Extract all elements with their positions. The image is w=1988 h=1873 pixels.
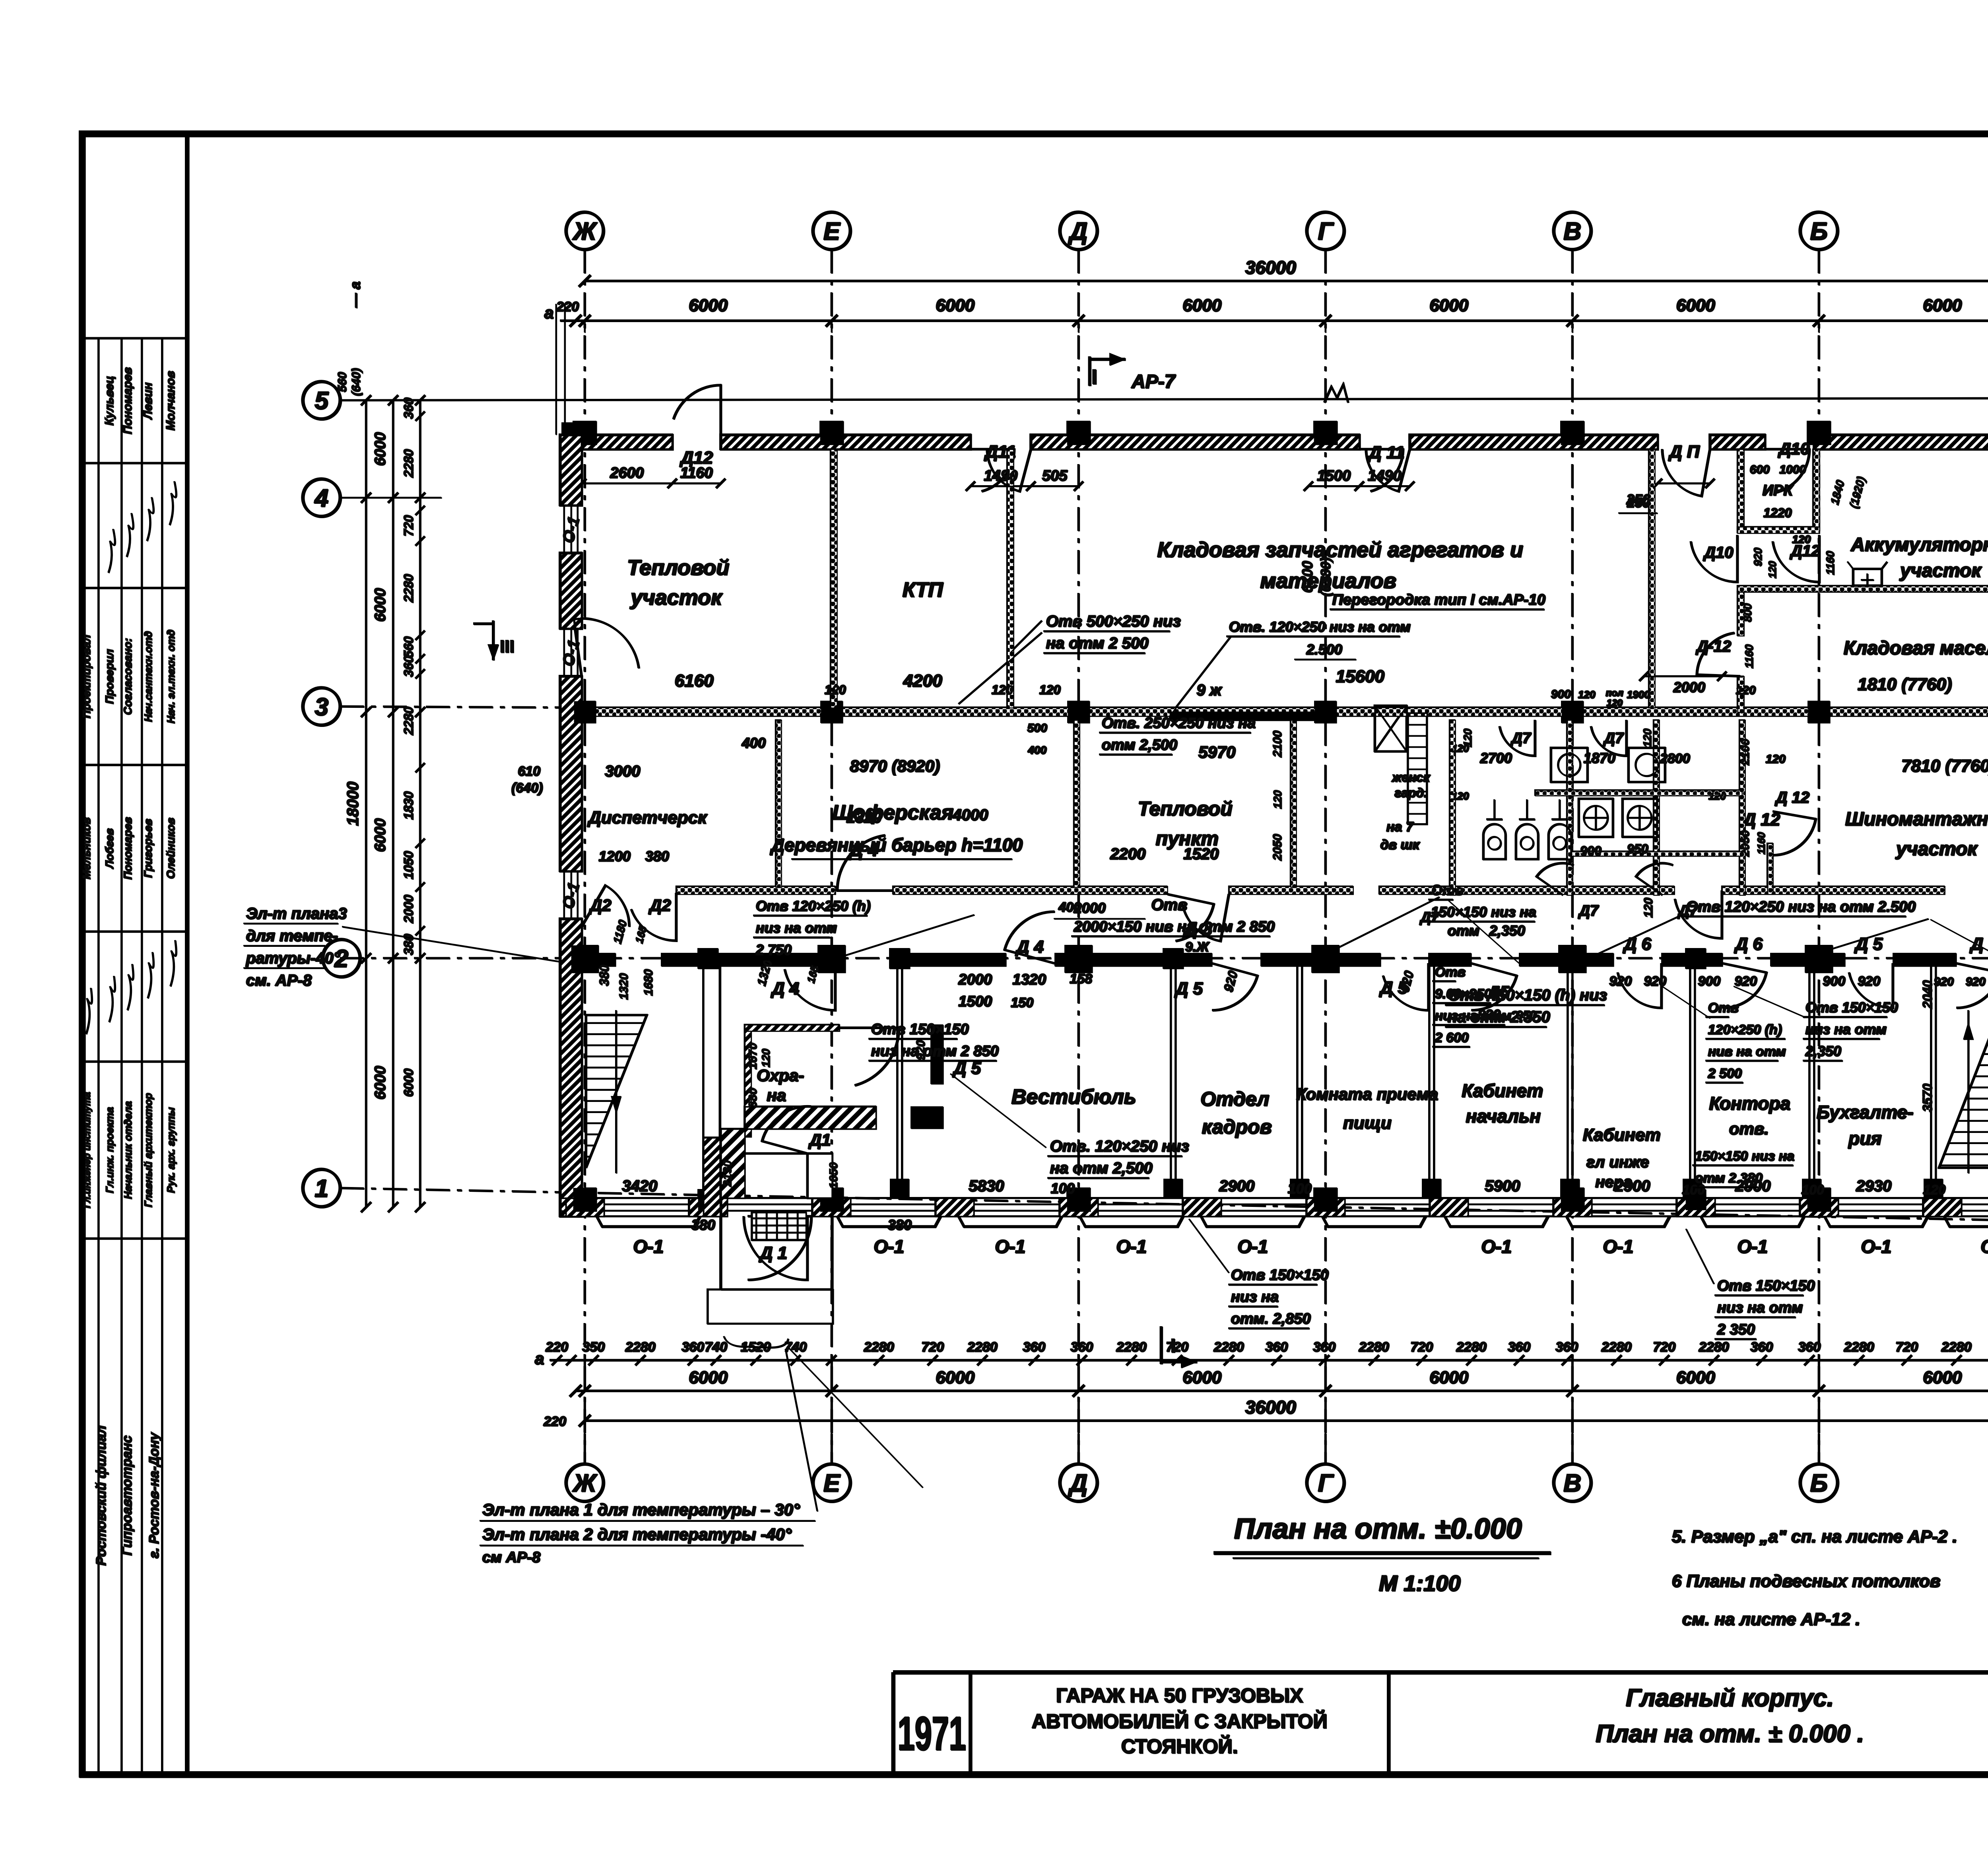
door Д6 row2 4 (1934, 934, 1988, 1008)
washroom small dims (1451, 688, 1785, 857)
door Д4 row2 left (755, 958, 835, 1010)
axis-a marker bottom left (534, 1349, 566, 1429)
guard room Охрана walls (744, 1024, 943, 1137)
guard room label (756, 1066, 804, 1104)
grid circle Д top (1060, 212, 1097, 249)
partition shinomontazh left lower (1767, 843, 1773, 894)
strip signatures row 1 (108, 481, 176, 573)
door Д6 row2 2 (1698, 934, 1766, 1008)
door Д3 corridor top (1110, 845, 1229, 941)
annotation Отв 450x150 komnata (1445, 986, 1607, 1027)
section mark I top with AP-7 (1089, 353, 1176, 392)
room label Кладовая запчастей (1039, 538, 1523, 697)
washroom doors Д7 (1419, 720, 1698, 925)
leader lines crossing corridor (835, 632, 1988, 1018)
annotation Отв 150x150 kabinet (1428, 882, 1536, 938)
row axis 4 left stub (340, 497, 441, 498)
grid circle В top (1553, 212, 1591, 249)
washroom sinks upper (1551, 748, 1665, 782)
annotation Отв 120x250 storeroom (1226, 618, 1410, 659)
annotation Отв 120x250 corridor left (753, 898, 870, 959)
title block frame (893, 1672, 1988, 1774)
door Д4 row2 vestibule (958, 911, 1092, 1010)
grid circle 1 left (303, 1169, 340, 1207)
room label Контора (1709, 1093, 1790, 1138)
door Д5 row2 kabinet (1471, 963, 1536, 1022)
left margin dimension chain lines (361, 395, 425, 1212)
door Д10 top wall (1765, 439, 1809, 493)
room label Комната приема пищи (1296, 1084, 1438, 1133)
title block project name (1031, 1684, 1327, 1757)
vestibule dimension 1670 380 (746, 1042, 772, 1107)
closet ИРК walls (1737, 449, 1819, 545)
bottom bay dimension chain 6000 (569, 1368, 1988, 1397)
note Эл-т плана 1-2 bottom left (480, 1349, 817, 1566)
oil storeroom horizontal wall (1737, 585, 1988, 592)
grid circle Б top (1800, 212, 1837, 249)
top overall dimension 36000 (579, 249, 1988, 287)
room label Вестибюль (1011, 1085, 1136, 1108)
annotation Отв 150x150 kontora low (1692, 1148, 1794, 1187)
row axis 2 dash-dot line (340, 957, 1988, 959)
row 3 column squares (573, 701, 1988, 723)
grid circle Б bottom (1800, 1464, 1837, 1501)
row axis 3 dash-dot line (340, 706, 1988, 716)
main title План на отм 0.000 (1213, 1513, 1551, 1595)
annotation Отв 2000x150 corridor (1054, 896, 1274, 954)
bottom wall piers hatched (565, 1198, 1988, 1216)
section mark III left (473, 620, 514, 660)
bottom circle stems (584, 1360, 1988, 1464)
door Д6 row2 1 (1609, 934, 1666, 1008)
room label Отдел кадров (1200, 1088, 1272, 1138)
annotation Отв 150x150 vestibule corridor (868, 1021, 998, 1061)
akkum room dims right (1828, 475, 1988, 510)
partition teplo punkt right (1290, 720, 1296, 887)
door ДП top wall (1626, 442, 1710, 507)
grid circle Г top (1307, 212, 1344, 249)
kladovaya dim 2000 near oil room (1639, 671, 1755, 697)
bottom exterior wall band (560, 1198, 1988, 1216)
stair flight left (586, 1010, 646, 1173)
grid circle Ж top (566, 212, 603, 249)
grid circle Ж bottom (566, 1464, 603, 1501)
top wall inner dims (577, 464, 1714, 513)
note 6 Планы подвесных потолков (1672, 1571, 1940, 1629)
corridor top partition wall (676, 886, 1988, 894)
annotation Отв 150x150 buhgalteria (1803, 999, 1898, 1061)
door Д5 row2 3 (1823, 934, 1893, 1008)
door Д-12 oil storeroom (1695, 633, 1740, 676)
bottom window dimension chain (545, 1339, 1988, 1365)
strip signatures row 2 (86, 940, 176, 1034)
room label Кабинет начальн (1462, 1080, 1543, 1126)
entrance brace and leader (724, 1336, 922, 1487)
room label Кабинет гл инженера (1582, 1125, 1660, 1191)
door Д1 tambour (720, 1106, 840, 1189)
washroom toilets (1578, 799, 1656, 858)
tambour walls (720, 1129, 832, 1198)
annotation Отв 120x250 corridor right (1642, 898, 1915, 917)
annotation Отв 900x250 kabinet nach (1432, 964, 1511, 1047)
axis break squiggle top (1324, 384, 1348, 402)
annotation Отв 500x250 storeroom (1010, 612, 1180, 653)
partition teplo punkt left (1074, 720, 1079, 887)
door Д5 row2 komnata (1378, 963, 1428, 1010)
room label Тепловой пункт (1058, 730, 1284, 915)
door Д11 top wall first (970, 442, 1031, 491)
row 3 interior wall (581, 707, 1988, 721)
section mark I bottom (1161, 1326, 1197, 1368)
door Д10 below ИРК (1691, 535, 1778, 582)
door Д12 top wall (673, 385, 720, 467)
partition КТП left (830, 449, 837, 707)
annotation Отв 120x250 vestibule (950, 1074, 1189, 1178)
grid circle Д bottom (1060, 1464, 1097, 1501)
strip organization name (93, 1425, 161, 1566)
room label Кладовая масел (1843, 637, 1988, 694)
door Д12 corridor right (1675, 810, 1780, 938)
bottom room dimension row (622, 1173, 1988, 1233)
grid circle Е bottom (813, 1464, 850, 1501)
strip roles row 2 (82, 1092, 177, 1208)
doors Д2 dispatcher (581, 885, 676, 999)
grid circle 5 left (303, 381, 340, 419)
note Эл-т плана 3 left (243, 905, 560, 989)
row axis 5 line (340, 398, 1988, 400)
bottom band partition base squares (890, 1179, 1943, 1198)
annotation Отв 120x250 kontora (1705, 1000, 1786, 1082)
oil storeroom left wall (1737, 592, 1755, 712)
row 2 corridor wall thick segments (581, 953, 1988, 966)
bottom wall column squares (573, 1187, 1988, 1211)
column axis dash-dot vertical lines (584, 249, 1988, 1464)
door Д4 corridor top (837, 806, 988, 890)
bottom overall dimension 36000 (579, 1397, 1988, 1426)
left margin dimension texts (336, 281, 425, 1099)
stairwell partition right (703, 963, 720, 1216)
room label Тепловой участок (627, 556, 729, 690)
door Д12 below ИРК (1773, 535, 1836, 582)
row axis 1 dash-dot line (340, 1188, 1988, 1226)
partition dispatcher right (775, 720, 781, 887)
room label Бухгалтерия (1816, 1102, 1913, 1148)
grid circle В bottom (1553, 1464, 1591, 1501)
washroom wardrobe lockers (1408, 713, 1427, 824)
entrance porch bottom (707, 1198, 833, 1323)
top wall column squares (561, 421, 1988, 445)
washroom urinals (1483, 799, 1571, 859)
partition storeroom right (1648, 449, 1654, 707)
annotation Перегородка тип I (1330, 591, 1545, 609)
partition КТП right (1007, 449, 1013, 707)
title block sheet name (1596, 1684, 1864, 1747)
strip roles row 1 (80, 630, 177, 723)
crossed partition box (1375, 705, 1406, 751)
room label КТП (824, 578, 1013, 697)
bottom band partitions (897, 963, 1936, 1198)
axis-a marker lines top left (556, 304, 565, 435)
stair flight right (1920, 980, 1988, 1173)
door Д5 row2 otdel (1174, 963, 1257, 1010)
annotation Отв 150x150 bottom middle (1189, 1219, 1328, 1328)
left wall window labels O-1 (559, 515, 583, 911)
row 2 column squares (571, 945, 1988, 973)
room label Шоферская (605, 734, 1023, 859)
left margin small dims 610 (640) (511, 764, 542, 795)
note 5 Размер а (1672, 1527, 1957, 1546)
grid circle 4 left (303, 479, 340, 516)
room label Аккумуляторный (1850, 534, 1988, 581)
bottom wall window sills (596, 1216, 1988, 1226)
door Д5 guard room (839, 1028, 981, 1085)
strip names row 1 (103, 367, 177, 434)
left exterior wall hatched segments (560, 435, 581, 1216)
grid circle 3 left (303, 688, 340, 725)
washroom partition walls (1449, 720, 1745, 895)
strip names row 2 (80, 817, 177, 879)
tambour grille (751, 1212, 806, 1240)
door Д11 top wall second (1359, 443, 1409, 491)
storeroom rotated dim 6100 (1299, 557, 1333, 596)
top exterior wall hatched segments (560, 435, 1988, 449)
annotation Отв 250x250 (1027, 715, 1255, 756)
grid circle Е top (813, 212, 850, 249)
room label Шиномонтажный (1845, 756, 1988, 859)
door Д12 shinomontazh (1755, 789, 1815, 855)
top bay dimension chain 6000 x6 (544, 295, 1988, 332)
annotation Отв 150x150 bottom right (1686, 1229, 1815, 1339)
room label Диспетчерская (586, 808, 707, 864)
left signature strip (82, 134, 187, 1774)
grid circle 2 left (322, 939, 360, 977)
door at left wall into Тепловой участок (573, 618, 639, 676)
wall device symbol (1847, 562, 1887, 587)
grid circle Г bottom (1307, 1464, 1344, 1501)
washroom labels (1380, 770, 1430, 852)
bottom wall window labels O-1 (633, 1236, 1988, 1257)
